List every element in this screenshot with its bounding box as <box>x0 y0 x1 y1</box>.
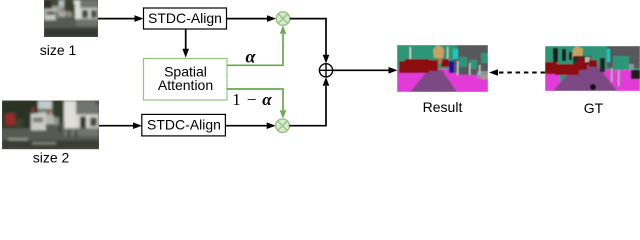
svg-text:α: α <box>246 47 257 67</box>
wire: add node to Result image <box>333 69 389 71</box>
wire: image size 1 to top STDC-Align box <box>98 18 135 20</box>
green wire 1-alpha: Spatial Attention to bottom multiply node <box>227 89 283 110</box>
wire: bottom STDC-Align to bottom multiply node <box>226 125 268 127</box>
svg-text:size 2: size 2 <box>33 150 70 164</box>
Result segmentation image <box>397 45 488 92</box>
green wire alpha: Spatial Attention to top multiply node <box>227 34 283 65</box>
input image size 1 (street photo, top-left) <box>44 0 98 37</box>
wire: top STDC-Align down to Spatial Attention <box>185 29 187 49</box>
svg-text:Result: Result <box>423 99 463 115</box>
multiply node (bottom, circle-X) <box>276 119 290 133</box>
box STDC-Align (top) <box>144 8 227 29</box>
svg-text:GT: GT <box>584 100 604 116</box>
svg-text:1−α: 1−α <box>232 90 272 109</box>
box STDC-Align (bottom) <box>142 114 226 135</box>
add node (circle-plus) <box>319 64 332 77</box>
svg-text:STDC-Align: STDC-Align <box>147 116 221 132</box>
input image size 2 (street photo, bottom-left) <box>2 101 99 150</box>
dashed wire: GT to Result image <box>497 72 545 74</box>
wire: image size 2 to bottom STDC-Align box <box>99 125 134 127</box>
svg-text:Attention: Attention <box>158 77 213 93</box>
svg-text:STDC-Align: STDC-Align <box>148 10 222 26</box>
wire: top multiply node to add node (right then down) <box>290 19 326 55</box>
box Spatial Attention <box>144 59 228 101</box>
wire: top STDC-Align to top multiply node <box>227 18 268 20</box>
multiply node (top, circle-X) <box>276 12 290 26</box>
wire: bottom multiply node to add node (right then up) <box>289 86 326 126</box>
svg-text:size 1: size 1 <box>40 42 77 58</box>
GT segmentation image <box>545 46 640 91</box>
